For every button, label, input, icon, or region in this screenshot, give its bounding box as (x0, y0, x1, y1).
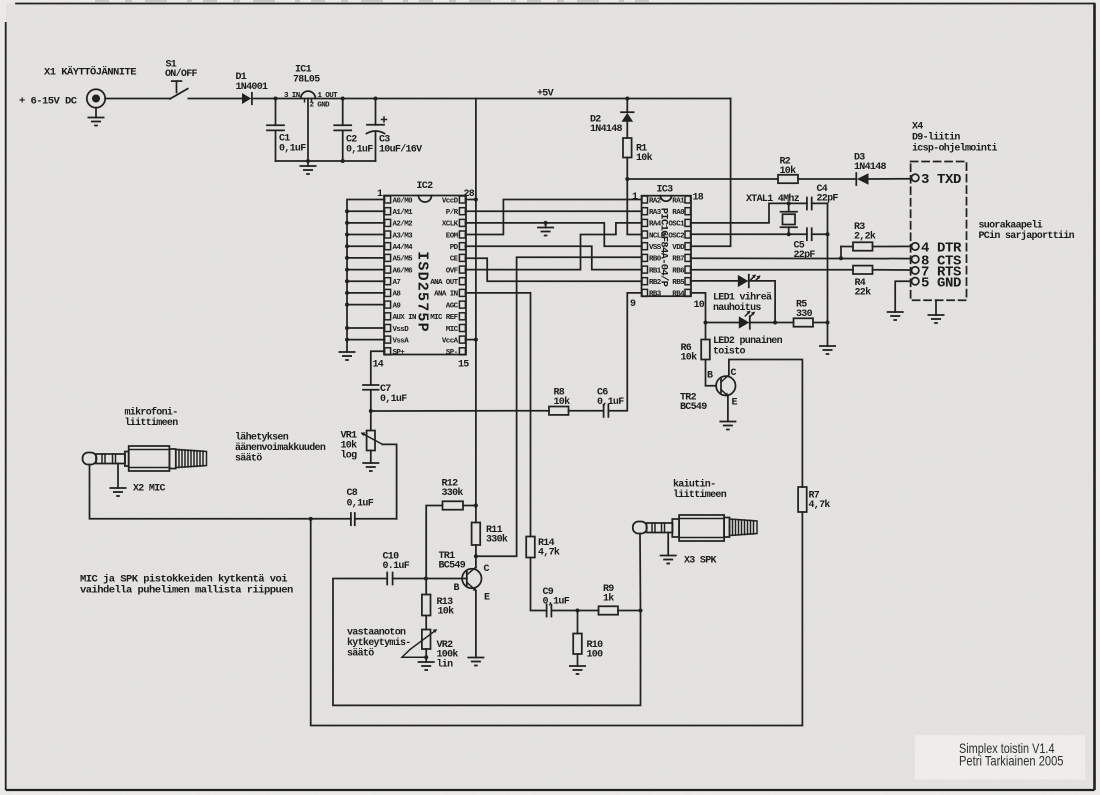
IC3 pin boxes right (685, 196, 691, 296)
wire +5V to D2 (626, 99, 628, 113)
node R3 tap on RB7 (839, 256, 843, 260)
node C2 bottom (341, 159, 345, 163)
wire R9 to X3 node (618, 610, 641, 612)
transistor TR1 BC549 (462, 567, 481, 591)
X4 pin circle 5 GND (912, 278, 919, 285)
wire +5V vertical rail to R11 (475, 99, 477, 523)
wire +5V right corner to IC3 VDD (692, 99, 731, 247)
IC ISD2575P U=IC2 body (384, 196, 466, 355)
wire X3 tip down to R9 node (639, 534, 642, 611)
wire S1 to D1 (188, 98, 242, 100)
resistor R5 (794, 318, 814, 326)
ground IC2 left rail (339, 352, 356, 360)
IC2 pin boxes right (459, 196, 465, 355)
node C4 C5 junction (826, 232, 830, 236)
wire OVF to IC3 RA4 (465, 223, 641, 270)
node R12/R11 (474, 504, 478, 508)
node C9/R9/R10 (576, 609, 580, 613)
wire node to R2 (627, 178, 778, 180)
wire TR2 collector to R7 column (729, 360, 803, 488)
wire R3 left lead (841, 246, 853, 248)
potentiometer VR2 (402, 629, 437, 657)
wire RB7 to CTS (691, 257, 912, 259)
capacitor C4 (807, 198, 828, 235)
wire R1 to MCLR node (626, 158, 628, 180)
node RB4/R6/LED2 (704, 321, 708, 325)
wire C1 C2 C3 bottom rail (276, 160, 376, 162)
capacitor C6 (604, 405, 609, 417)
capacitor C7 (363, 385, 379, 411)
wire PD to IC3 RB1 (465, 246, 641, 269)
capacitor C2 (334, 99, 351, 162)
ground C4/C5/R5 (819, 346, 836, 354)
node R5 ground column (826, 321, 830, 325)
wire EOM to IC3 RA2 (465, 200, 641, 235)
wire A5 to rail (347, 257, 385, 259)
wire SP+ down to C7 (371, 351, 385, 385)
wire R10 to ground (577, 654, 579, 666)
wire RB3 to C6 via vertical (609, 293, 642, 411)
node VssD rail (345, 326, 349, 330)
node A3 rail (345, 233, 349, 237)
wire A2 to rail (347, 222, 385, 224)
wire A6 to rail (347, 269, 385, 271)
resistor R12 (443, 501, 464, 509)
node VssA rail (345, 338, 349, 342)
wire IC3 RB0 to TR1 collector (476, 257, 642, 556)
wire R12 right to +5V column (463, 505, 476, 507)
wire XCLK ground stem (545, 223, 547, 228)
ground R10 (569, 666, 586, 674)
wire OSC2 to C5 (691, 233, 807, 235)
wire TR1 emitter to ground (475, 591, 477, 658)
X4 pin circle 4 DTR (912, 243, 919, 250)
wire TR2 emitter to ground (727, 396, 729, 422)
wire X3 sleeve to ground (667, 533, 669, 556)
wire A1 to rail (347, 210, 385, 212)
wire X2 tip to C8 mic line (90, 465, 351, 519)
wire R6 top from LED2 node (705, 323, 707, 340)
node D1/C1 junction (274, 97, 278, 101)
capacitor C5 (807, 228, 828, 240)
node outer loop to mic line (309, 517, 313, 521)
resistor R8 (549, 407, 569, 415)
resistor R10 (573, 634, 582, 655)
node C3 junction (374, 97, 378, 101)
ground X1 (88, 118, 105, 126)
node IC1 gnd rail (306, 159, 310, 163)
wire R5 to ground rail (813, 322, 828, 324)
wire D3 to TXD (869, 178, 912, 180)
ground X3 (660, 556, 677, 564)
transistor TR2 BC549 (716, 375, 735, 397)
title box (915, 735, 1085, 779)
diode D3 (856, 173, 868, 185)
wire LED1 cathode down to LED2 row (749, 281, 776, 323)
connector X4 D9 dashed box (911, 162, 967, 301)
node C7 VR1 R8 junction (369, 409, 373, 413)
wire R6 to TR2 base (706, 360, 717, 386)
wire LED2 cathode to R5 (750, 322, 794, 324)
resistor R14 (526, 537, 535, 558)
wire VssA to rail (347, 339, 385, 341)
node A5 rail (345, 256, 349, 260)
node C2 junction (341, 97, 345, 101)
resistor R2 (778, 175, 798, 183)
ground TR1 emitter (467, 658, 484, 666)
wire X1 to ground (95, 108, 97, 118)
wire X2 sleeve to ground (117, 464, 119, 489)
node A4 rail (345, 244, 349, 248)
IC2 pin boxes left (385, 196, 391, 355)
resistor R4 (853, 266, 873, 274)
ground under IC1 (300, 166, 317, 174)
wire R14 to C9 (531, 558, 547, 611)
X4 pin circle 3 TXD (912, 174, 919, 181)
node crystal bottom (787, 232, 791, 236)
node A6 rail (345, 268, 349, 272)
node A9 rail (345, 303, 349, 307)
capacitor C9 (547, 605, 552, 617)
wire C10 to TR1 base (393, 578, 467, 580)
capacitor C3 electrolytic (367, 99, 387, 162)
wire R12 left to bias column (426, 506, 442, 579)
wire R2 to D3 (798, 178, 856, 180)
wire VccA to +5V rail (465, 339, 476, 341)
capacitor C10 (387, 573, 392, 585)
wire R13 to VR2 (425, 616, 427, 630)
wire RB6 to R4 to RTS (691, 269, 853, 271)
scan noise overlay (0, 0, 1, 1)
wire R10 top (577, 611, 579, 634)
wire VR2 to ground (425, 649, 427, 662)
ground VR2 (418, 662, 435, 670)
connector X2 MIC jack (83, 446, 207, 471)
wire R3 tap vertical (840, 247, 842, 259)
wire LED2 anode (706, 322, 739, 324)
connector X3 SPK jack (633, 515, 757, 541)
wire A8 to rail (347, 292, 385, 294)
wire CE to IC3 RB2 (465, 258, 641, 281)
resistor R13 (422, 595, 431, 616)
ground X4 shield (928, 315, 945, 323)
wire VR1 bottom to ground (370, 451, 372, 464)
capacitor C8 (351, 513, 397, 525)
wire inner loop right/bottom/left (333, 579, 641, 706)
resistor R9 (599, 606, 619, 614)
wire VR1 top lead (370, 411, 372, 431)
wire RB5 to LED1 (691, 280, 738, 282)
node A2 rail (345, 221, 349, 225)
capacitor C1 (267, 99, 284, 162)
wire R13 top (425, 579, 427, 595)
wire X4 GND pin to ground (895, 281, 911, 312)
wire OSC1 to crystal top (691, 203, 807, 223)
ground TR2 emitter (719, 422, 736, 430)
wire X4 box shield to ground (935, 300, 937, 315)
node A8 rail (345, 291, 349, 295)
LED D=LED1 green (738, 275, 761, 288)
wire A4 to rail (347, 245, 385, 247)
wire IC1 GND down (307, 99, 309, 162)
node +5V to D2 (625, 97, 629, 101)
resistor R1 (623, 138, 632, 158)
wire RB4 down to LED2 row (691, 293, 706, 323)
wire R3 to DTR (873, 245, 912, 247)
LED D=LED2 red (739, 311, 755, 329)
switch S1 (170, 81, 188, 99)
wire TR1 collector vertical (475, 556, 477, 567)
wire ANA IN down through R14 (465, 293, 530, 537)
wire R7 down to outer loop bottom (311, 512, 803, 726)
node C10/R12/R13 base node (424, 577, 428, 581)
node R1/R2/MCLR (625, 177, 629, 181)
X4 pin circle 8 CTS (912, 256, 919, 263)
regulator IC1 78L05 (301, 91, 316, 102)
wire A7 to rail (347, 280, 385, 282)
wire IC2 address bus left rail (347, 200, 385, 353)
ground VR1 (362, 463, 379, 471)
ground X4 GND pin (887, 312, 904, 320)
node crystal top (787, 201, 791, 205)
wire VccD to +5V rail (465, 199, 476, 201)
wire C9 to R10 node (551, 610, 598, 612)
wire A9 to rail (347, 304, 385, 306)
wire to ground under IC1 (307, 161, 309, 166)
node VR2 wiper join (424, 655, 428, 659)
connector X1 KAYTTOJANNITE (87, 89, 105, 107)
resistor R3 (853, 242, 873, 250)
resistor R6 (701, 340, 710, 360)
resistor R11 (472, 523, 481, 546)
node VccD rail (474, 198, 478, 202)
resistor R7 (798, 487, 807, 512)
wire C6 to R8 (569, 410, 604, 412)
wire R8 to C7/VR1 node (371, 410, 549, 412)
diode D1 (242, 93, 252, 104)
wire +5V rail (252, 98, 731, 100)
node VccA rail (474, 338, 478, 342)
wire MCLR vertical (627, 179, 641, 235)
node TR1 collector (474, 554, 478, 558)
node LED1/LED2 cathode join (773, 321, 777, 325)
node R9/X3/inner loop (639, 609, 643, 613)
wire P/R to IC3 RA3 (465, 210, 641, 212)
wire A3 to rail (347, 234, 385, 236)
wire R11 to TR1 collector node (475, 545, 477, 556)
ground X2 (110, 488, 127, 496)
node A1 rail (345, 209, 349, 213)
IC PIC16F84A U=IC3 body (642, 196, 692, 297)
X4 pin circle 7 RTS (912, 267, 919, 274)
wire C4/C5 down to R5 node and ground (827, 234, 829, 346)
wire XCLK to IC3 VSS (465, 223, 641, 246)
crystal XTAL1 (781, 203, 798, 234)
node XCLK ground tap (544, 221, 548, 225)
wire X1 to S1 (105, 98, 170, 100)
ground XCLK (537, 228, 554, 236)
diode D2 (621, 112, 634, 138)
wire R4 to RTS (873, 269, 912, 271)
wire VssD to rail (347, 327, 385, 329)
node A7 rail (345, 279, 349, 283)
IC3 pin boxes left (642, 196, 648, 296)
potentiometer VR1 (361, 431, 397, 519)
